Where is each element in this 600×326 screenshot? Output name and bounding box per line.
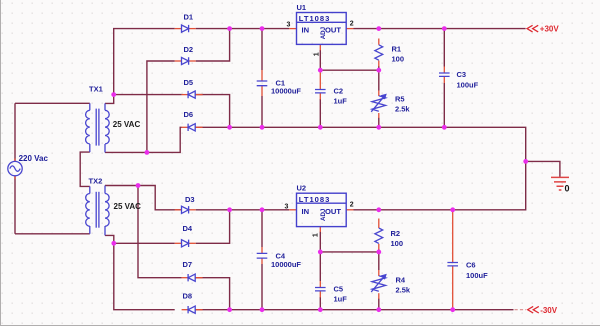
svg-text:100: 100 <box>392 55 405 64</box>
AC source V1 220 Vac <box>8 159 22 179</box>
wire junction B to C1 top <box>230 28 262 30</box>
wire TX1 primary bottom to TX2 primary top link <box>80 152 90 186</box>
svg-text:0: 0 <box>565 184 570 194</box>
svg-text:U1: U1 <box>297 3 307 12</box>
svg-text:LT1083: LT1083 <box>299 14 330 23</box>
junction C1 top <box>260 26 265 31</box>
svg-text:10000uF: 10000uF <box>271 86 301 95</box>
junction D1/D2 cathodes <box>227 26 232 31</box>
wire C4 top to U2 IN <box>262 209 289 211</box>
diode D5 <box>182 91 203 98</box>
diode D3 <box>175 206 196 213</box>
wire D7 drop column <box>138 186 182 278</box>
svg-text:IN: IN <box>302 25 310 34</box>
wire D6 anode to bus <box>196 126 230 128</box>
junction node A1 (TX1 secondary top) <box>111 92 116 97</box>
svg-text:C3: C3 <box>457 70 467 79</box>
resistor R1 <box>375 39 383 67</box>
svg-text:-30V: -30V <box>540 306 558 315</box>
wire D2 drop column <box>147 61 175 152</box>
svg-text:10000uF: 10000uF <box>271 260 301 269</box>
wire C4 column lower <box>261 264 263 310</box>
wire right column to U2 OUT rail <box>453 161 526 209</box>
diode D2 <box>175 57 196 64</box>
ground symbol 0 <box>551 177 569 190</box>
wire C5 column lower <box>319 297 321 310</box>
wire C5 column upper <box>319 252 321 281</box>
wire D7 anode right and down <box>196 278 230 310</box>
junction C6 top <box>450 207 455 212</box>
svg-text:D7: D7 <box>183 260 193 269</box>
transformer TX2 <box>86 186 109 236</box>
svg-text:2.5k: 2.5k <box>395 104 410 113</box>
svg-text:3: 3 <box>287 22 291 29</box>
svg-text:LT1083: LT1083 <box>299 195 330 204</box>
wire source bottom horizontal to TX2 primary <box>15 233 90 235</box>
svg-text:1: 1 <box>312 233 319 237</box>
wire -30V rail <box>230 309 514 311</box>
capacitor C3 <box>439 67 450 84</box>
svg-text:D6: D6 <box>184 110 194 119</box>
port -30V <box>528 306 558 315</box>
junction R4 bottom <box>376 307 381 312</box>
wire C6 column upper (red pin lead) <box>452 210 454 256</box>
svg-text:R1: R1 <box>392 44 402 53</box>
junction C3 bottom <box>442 125 447 130</box>
wire source top horizontal to TX1 primary <box>15 102 90 104</box>
svg-text:TX2: TX2 <box>89 177 103 186</box>
svg-text:2.5k: 2.5k <box>396 286 411 295</box>
junction R1 bottom <box>376 68 381 73</box>
svg-text:1uF: 1uF <box>334 97 348 106</box>
wire C3 column lower <box>443 83 445 127</box>
junction C4 top <box>260 207 265 212</box>
wire ground hook <box>526 161 560 177</box>
svg-text:3: 3 <box>285 204 289 211</box>
svg-text:C5: C5 <box>334 285 344 294</box>
wire C6 column lower (red pin lead) <box>452 273 454 310</box>
wire D5 anode right and down to D6 row <box>196 95 230 128</box>
wire D3 junction to C4 top <box>230 209 262 211</box>
svg-text:D3: D3 <box>185 195 195 204</box>
wire R2-R4 link <box>378 249 380 270</box>
junction D5/D6 anodes <box>227 125 232 130</box>
svg-text:1uF: 1uF <box>334 295 348 304</box>
port +30V <box>527 25 559 34</box>
junction R5 bottom <box>376 125 381 130</box>
capacitor C4 <box>257 247 268 264</box>
wire -30V port dashes <box>515 309 527 311</box>
wire node A1 to D5 <box>114 94 182 96</box>
wire D1 cathode to junction B <box>196 28 230 30</box>
wire D4 cathode up to D3 rail <box>196 210 230 244</box>
capacitor C2 <box>315 70 326 99</box>
junction C5 bottom <box>318 307 323 312</box>
wire C2 column lower <box>319 99 321 127</box>
wire C1 top to U1 IN <box>262 28 289 30</box>
wire U1 OUT to R1 top <box>354 28 379 30</box>
wire D8 anode to -30V rail <box>196 309 230 311</box>
svg-text:R4: R4 <box>396 276 406 285</box>
diode D7 <box>182 274 203 281</box>
wire U2 OUT to R2 top <box>354 209 379 211</box>
wire source top vertical <box>14 103 16 161</box>
wire U1 ADJ drop <box>319 50 321 70</box>
resistor R2 <box>375 219 383 250</box>
regulator U2 LT1083 <box>289 193 353 232</box>
wire node A1 up to D1 row <box>114 29 175 95</box>
svg-text:ADJ: ADJ <box>320 26 327 39</box>
wire R1 top to C3 top <box>379 28 445 30</box>
junction C2 bottom <box>318 125 323 130</box>
svg-text:R5: R5 <box>395 95 405 104</box>
svg-text:1: 1 <box>314 52 321 56</box>
svg-text:220 Vac: 220 Vac <box>19 154 49 163</box>
wire R2 top to C6 top <box>379 209 453 211</box>
wire R5 bottom link <box>378 118 380 128</box>
junction D2 drop at TX1 secondary bottom <box>145 150 150 155</box>
svg-text:C2: C2 <box>334 87 344 96</box>
wire C4 column upper <box>261 210 263 247</box>
wire TX2 secondary top row <box>105 186 182 210</box>
svg-text:IN: IN <box>302 207 310 216</box>
potentiometer R4 <box>371 270 387 299</box>
junction R2 bottom <box>376 250 381 255</box>
wire TX1 secondary top jog <box>105 95 114 104</box>
svg-text:D2: D2 <box>184 45 194 54</box>
wire C1 column upper <box>261 29 263 70</box>
wire C3 column upper <box>443 29 445 67</box>
wire U2 ADJ drop <box>319 232 321 252</box>
svg-text:100: 100 <box>391 239 404 248</box>
diode D4 <box>175 240 196 247</box>
diode D8 <box>182 306 203 313</box>
svg-text:D8: D8 <box>183 292 193 301</box>
junction U1 ADJ <box>318 68 323 73</box>
wire C3 top to +30V port <box>444 28 525 30</box>
wire TX1 secondary bottom row <box>105 127 182 152</box>
regulator U1 LT1083 <box>289 13 353 51</box>
svg-text:+30V: +30V <box>540 25 560 34</box>
svg-text:25 VAC: 25 VAC <box>113 120 141 129</box>
svg-text:OUT: OUT <box>325 207 341 216</box>
svg-text:C6: C6 <box>466 261 476 270</box>
wire D3 cathode to junction <box>196 209 230 211</box>
wire D2 cathode up to junction B <box>196 29 230 61</box>
svg-text:R2: R2 <box>391 229 401 238</box>
junction TX2 secondary bottom <box>111 241 116 246</box>
svg-text:D1: D1 <box>184 13 194 22</box>
wire C1 column lower <box>261 96 263 127</box>
diode D6 <box>182 124 203 131</box>
junction C1 bottom <box>260 125 265 130</box>
junction U2 ADJ <box>318 250 323 255</box>
wire R4 bottom link <box>378 299 380 310</box>
wire R1-R5 link <box>378 66 380 91</box>
wire D8 drop column <box>114 243 175 309</box>
junction C4 bottom <box>260 307 265 312</box>
junction ground tap <box>523 159 528 164</box>
wire U2 ADJ row to R2 bottom <box>320 251 379 253</box>
svg-text:OUT: OUT <box>325 25 341 34</box>
junction D3/D4 cathodes <box>227 207 232 212</box>
svg-text:100uF: 100uF <box>466 271 488 280</box>
wire D4 row <box>114 242 175 244</box>
junction C3 top <box>442 26 447 31</box>
transformer TX1 <box>86 103 110 152</box>
svg-text:U2: U2 <box>297 184 307 193</box>
svg-text:2: 2 <box>350 202 354 209</box>
junction C6 bottom <box>450 307 455 312</box>
svg-text:25 VAC: 25 VAC <box>114 202 142 211</box>
svg-text:ADJ: ADJ <box>320 208 327 221</box>
svg-text:D4: D4 <box>183 224 193 233</box>
capacitor C6 <box>447 256 458 273</box>
capacitor C5 <box>315 281 326 298</box>
capacitor C1 <box>257 70 268 96</box>
diode D1 <box>175 25 196 32</box>
junction R1 top <box>376 26 381 31</box>
svg-text:D5: D5 <box>184 78 194 87</box>
svg-text:2: 2 <box>350 21 354 28</box>
wire ground bus <box>230 127 526 161</box>
svg-text:TX1: TX1 <box>89 85 103 94</box>
junction D7/D8 anodes <box>227 307 232 312</box>
svg-text:100uF: 100uF <box>457 81 479 90</box>
wire U1 ADJ row to R1 bottom <box>320 69 379 71</box>
junction TX2 secondary top <box>136 183 141 188</box>
junction R2 top <box>376 207 381 212</box>
potentiometer R5 <box>371 91 387 119</box>
wire TX2 secondary bottom jog <box>105 235 114 243</box>
wire source bottom vertical <box>14 176 16 234</box>
